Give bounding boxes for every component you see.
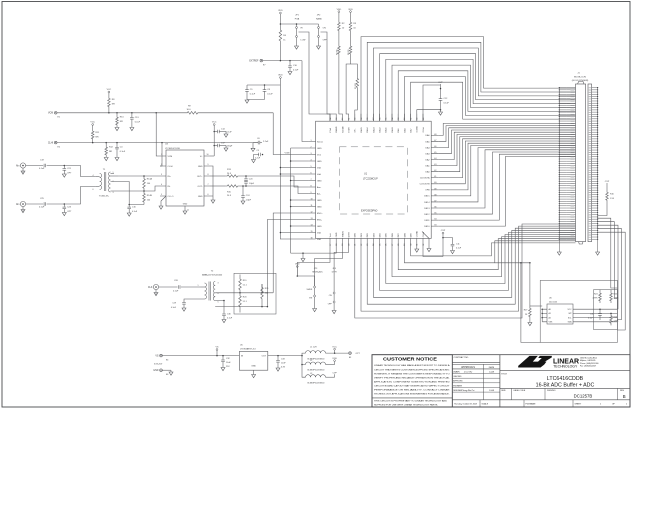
- connector J1 top notch: [578, 81, 584, 84]
- ground J2: [22, 168, 24, 171]
- resistor R3: [349, 20, 352, 33]
- svg-text:CVP: CVP: [441, 230, 446, 232]
- U3 left pin stubs: [160, 156, 166, 196]
- svg-text:62: 62: [342, 118, 344, 120]
- svg-text:10uF: 10uF: [281, 362, 286, 364]
- power VDD above R2: [338, 11, 340, 13]
- capacitor C21: [63, 166, 65, 169]
- resistor R14A: [143, 176, 146, 191]
- svg-text:4: 4: [93, 175, 94, 177]
- svg-text:LINEAR TECHNOLOGY HAS MADE A B: LINEAR TECHNOLOGY HAS MADE A BEST EFFORT…: [374, 364, 450, 367]
- svg-text:GND: GND: [183, 204, 188, 206]
- connector J3 AIn- SMA: [20, 201, 25, 206]
- svg-text:RAND: RAND: [316, 18, 322, 21]
- svg-text:NR: NR: [120, 121, 124, 123]
- wire EXTREF to Sense: [263, 60, 302, 62]
- svg-text:R25: R25: [614, 294, 617, 296]
- svg-text:9: 9: [208, 164, 209, 166]
- svg-text:3: 3: [161, 174, 162, 176]
- svg-text:Ain-: Ain-: [317, 192, 321, 195]
- ground C12: [439, 112, 443, 115]
- node VDD junction: [280, 23, 282, 25]
- wire DA7 bus: [411, 82, 576, 121]
- wire U6 left pin stubs: [542, 309, 547, 322]
- svg-text:R14A: R14A: [147, 178, 153, 181]
- svg-text:3.6V-20V: 3.6V-20V: [154, 364, 163, 366]
- svg-text:DA12: DA12: [379, 126, 382, 132]
- capacitor C10: [289, 61, 291, 66]
- wire ADC GND pin 18: [303, 247, 336, 254]
- svg-text:E3: E3: [349, 357, 351, 359]
- svg-text:DB15: DB15: [424, 196, 430, 198]
- svg-text:20: 20: [348, 244, 350, 246]
- svg-text:Phone: (408)432-1900: Phone: (408)432-1900: [580, 363, 598, 365]
- capacitor C25: [43, 202, 45, 206]
- svg-text:22: 22: [361, 244, 363, 246]
- svg-text:FILENAME: FILENAME: [526, 402, 537, 405]
- svg-text:C31: C31: [590, 314, 593, 316]
- svg-text:SUPPLIED FOR USE WITH LINEAR T: SUPPLIED FOR USE WITH LINEAR TECHNOLOGY …: [374, 404, 438, 407]
- ground ADC left rail: [301, 259, 305, 262]
- capacitor C11: [443, 238, 453, 245]
- svg-text:GND: GND: [153, 370, 158, 372]
- wire eeprom bus 3: [598, 225, 618, 309]
- resistor R9: [185, 112, 200, 115]
- wire eeprom bus 1: [598, 218, 618, 288]
- svg-text:VDD: VDD: [337, 9, 342, 11]
- svg-text:OGND: OGND: [417, 230, 419, 237]
- svg-text:SCALE: SCALE: [482, 402, 489, 405]
- inner pullup box: [594, 290, 618, 330]
- svg-text:DC1257B: DC1257B: [574, 394, 593, 399]
- svg-text:VCM: VCM: [48, 113, 53, 115]
- svg-text:4: 4: [161, 184, 162, 186]
- svg-text:GND: GND: [317, 161, 322, 163]
- svg-text:R14B: R14B: [147, 195, 153, 197]
- wire R16 to J1 rail: [598, 203, 607, 216]
- svg-text:7: 7: [311, 179, 312, 181]
- wire AIn+ to T1: [64, 166, 96, 177]
- svg-text:BLM18PG221SN1D: BLM18PG221SN1D: [308, 382, 326, 384]
- svg-text:6: 6: [208, 194, 209, 196]
- svg-text:1.8pF: 1.8pF: [249, 183, 255, 185]
- wire DB10 bus: [438, 156, 575, 226]
- resistor R14B: [143, 191, 146, 205]
- svg-text:Milpitas, CA 95035: Milpitas, CA 95035: [580, 359, 595, 362]
- svg-text:3: 3: [113, 192, 114, 194]
- wire DA0 bus: [438, 137, 575, 172]
- wire DB5 bottom bus: [386, 235, 576, 284]
- U3 right pin stubs: [204, 156, 210, 196]
- svg-text:A0: A0: [549, 308, 551, 311]
- ground R10: [115, 128, 119, 131]
- svg-text:34: 34: [434, 219, 436, 221]
- svg-text:1: 1: [198, 285, 199, 287]
- wire JP2 to ADC RAND pin 63: [321, 32, 337, 114]
- wire DB6 bottom bus: [392, 237, 576, 277]
- svg-text:2: 2: [311, 146, 312, 148]
- Linear Technology logo mark: [518, 356, 546, 368]
- wire L3 to CVP: [326, 376, 335, 378]
- wire J1 left rail to stubs: [559, 88, 566, 240]
- resistor R21: [261, 284, 264, 302]
- termination box: [234, 273, 276, 314]
- wire VS row: [162, 355, 239, 357]
- wire J1 left pin stubs: [566, 88, 575, 240]
- wire J4 to C26: [159, 286, 178, 288]
- svg-text:DA14: DA14: [366, 126, 369, 132]
- resistor R8: [108, 96, 111, 109]
- svg-text:VDD: VDD: [332, 358, 337, 360]
- terminal GND E6: [160, 369, 163, 372]
- svg-text:48: 48: [434, 134, 436, 136]
- svg-text:CLKOUTA: CLKOUTA: [420, 177, 430, 180]
- svg-text:VERIFY PROPER AND RELIABLE OPE: VERIFY PROPER AND RELIABLE OPERATION IN …: [374, 376, 451, 379]
- wire ENC+ from ADC pin 12: [273, 213, 308, 293]
- ground JP2: [318, 38, 320, 47]
- svg-text:37: 37: [434, 200, 436, 202]
- svg-text:220pF: 220pF: [227, 145, 233, 147]
- svg-text:EXPOSEDPAD: EXPOSEDPAD: [361, 209, 378, 212]
- contract no cell: [452, 361, 500, 363]
- ground right of J1 bottom: [597, 250, 599, 253]
- capacitor C26b center tap: [128, 205, 130, 207]
- svg-text:17: 17: [330, 244, 332, 246]
- power VCC for U3: [213, 124, 215, 126]
- svg-text:MODE: MODE: [342, 126, 344, 133]
- svg-text:Fax: (408)434-0507: Fax: (408)434-0507: [580, 366, 596, 368]
- svg-text:1-3-08: 1-3-08: [489, 390, 494, 392]
- svg-text:0.1uF: 0.1uF: [39, 168, 45, 170]
- ground C33: [276, 368, 280, 371]
- svg-text:16: 16: [311, 237, 313, 239]
- node J1 right rail junction dots: [597, 87, 598, 88]
- capacitor C13: [131, 113, 133, 118]
- resistor R25: [610, 291, 613, 303]
- ground C17: [225, 146, 227, 149]
- svg-text:VCC: VCC: [90, 122, 95, 124]
- svg-text:PERFORMANCE OR RELIABILITY. C: PERFORMANCE OR RELIABILITY. CONTACT LINE…: [374, 389, 450, 392]
- wire DB14 bus: [438, 148, 575, 202]
- svg-text:A2: A2: [549, 316, 551, 319]
- approvals rows: [452, 373, 500, 375]
- svg-text:GND: GND: [251, 366, 256, 368]
- wire DA14 bus: [367, 42, 575, 121]
- wire VDD to JP1: [280, 23, 296, 25]
- wire T1 center tap: [111, 182, 145, 205]
- svg-text:OGND: OGND: [417, 126, 419, 133]
- capacitor C17: [214, 145, 217, 147]
- capacitor C14: [214, 131, 217, 133]
- svg-text:CLHI: CLHI: [48, 143, 54, 145]
- ground pad tie: [427, 249, 431, 252]
- svg-text:0.1uF: 0.1uF: [120, 151, 126, 153]
- wire VCM net to ADC Vcm pin 3: [273, 113, 308, 155]
- svg-text:THIS CIRCUIT IS PROPRIETARY TO: THIS CIRCUIT IS PROPRIETARY TO LINEAR TE…: [374, 400, 448, 403]
- wire VCM row right: [200, 112, 273, 114]
- wire L2 to VDD: [326, 364, 335, 366]
- capacitor C26: [177, 285, 179, 289]
- svg-text:R24: R24: [594, 294, 597, 296]
- svg-text:44: 44: [434, 158, 436, 160]
- svg-text:0.1uF: 0.1uF: [456, 248, 462, 250]
- svg-text:14: 14: [311, 224, 313, 226]
- ground OGND pin 31: [415, 249, 419, 252]
- ground C23: [62, 213, 66, 216]
- ground C13: [130, 128, 134, 131]
- capacitor C4: [116, 143, 118, 148]
- ground C9 C8: [247, 99, 265, 101]
- svg-text:Jesse Wu: Jesse Wu: [464, 372, 473, 374]
- ground J3: [22, 207, 24, 210]
- U1 exposed pad (dashed): [339, 147, 407, 214]
- wire DB0 bottom bus: [355, 224, 576, 318]
- svg-text:GND: GND: [317, 148, 322, 150]
- wire R20 bottom: [239, 310, 241, 313]
- resistor R6: [350, 33, 352, 44]
- svg-text:4.99K: 4.99K: [593, 298, 599, 300]
- svg-text:SHEET: SHEET: [575, 403, 582, 405]
- wire DB9 bottom bus: [411, 243, 576, 256]
- svg-text:5: 5: [311, 166, 312, 168]
- svg-text:VDD: VDD: [278, 10, 283, 12]
- svg-text:11: 11: [187, 210, 189, 212]
- wire L1 to VCC: [326, 352, 349, 354]
- svg-text:DB11: DB11: [424, 220, 430, 222]
- svg-text:11: 11: [311, 205, 313, 207]
- svg-text:E4: E4: [166, 360, 168, 362]
- ground U3 GND pins: [211, 200, 215, 203]
- svg-text:R7 100: R7 100: [355, 83, 357, 89]
- svg-text:0.1uF: 0.1uF: [293, 69, 299, 71]
- svg-text:EDGE-CON: EDGE-CON: [574, 76, 586, 78]
- resistor R27: [529, 263, 531, 306]
- wire R5 to ADC MODE pin 62: [339, 56, 343, 114]
- svg-text:OUT+: OUT+: [197, 176, 203, 178]
- wire eeprom bus 5: [598, 232, 626, 330]
- svg-text:LTC2208CUP: LTC2208CUP: [363, 177, 378, 180]
- svg-text:33: 33: [434, 225, 436, 227]
- ground C29: [182, 308, 186, 311]
- svg-text:5: 5: [218, 302, 219, 304]
- svg-text:L1 1uH: L1 1uH: [310, 347, 317, 349]
- svg-text:40: 40: [434, 182, 436, 184]
- svg-text:0.1uF: 0.1uF: [444, 102, 450, 104]
- wire box feed vertical: [521, 263, 540, 343]
- wire J2 to C19: [26, 165, 44, 167]
- svg-text:DITH: DITH: [349, 232, 351, 237]
- svg-text:LOW: LOW: [301, 40, 306, 42]
- wire J1 right vertical rail: [597, 88, 599, 250]
- svg-text:NR: NR: [112, 104, 116, 106]
- svg-text:DB13: DB13: [424, 208, 430, 210]
- svg-text:OPT: OPT: [67, 211, 72, 213]
- wire R7 to ADC OF+ pin 60: [355, 90, 358, 121]
- wire U6 right pins: [573, 309, 617, 322]
- wire CLKOUTA bus: [438, 139, 575, 178]
- svg-text:6.3V: 6.3V: [281, 366, 286, 368]
- logo cell divider: [500, 369, 630, 371]
- wire DA2 bus: [438, 132, 575, 159]
- svg-text:46: 46: [434, 146, 436, 148]
- wire OFB bus: [438, 143, 575, 190]
- svg-text:43: 43: [434, 164, 436, 166]
- capacitor C19: [43, 164, 45, 168]
- wire GND E6: [162, 369, 171, 371]
- wire V+ to VCC: [210, 155, 214, 157]
- svg-text:38: 38: [434, 194, 436, 196]
- capacitor C16 vcm: [258, 153, 260, 157]
- capacitor C29: [182, 302, 186, 304]
- svg-text:1630 McCarthy Blvd.: 1630 McCarthy Blvd.: [580, 356, 598, 359]
- wire R13 to ADC Ain+: [240, 176, 309, 187]
- ground C16 vcm: [254, 155, 259, 160]
- svg-text:5: 5: [161, 194, 162, 196]
- svg-text:2: 2: [161, 164, 162, 166]
- resistor R10: [116, 113, 118, 115]
- svg-text:12: 12: [311, 211, 313, 213]
- wire eeprom bus 2: [598, 222, 618, 299]
- eeprom U6 24LC025 body: [547, 304, 573, 324]
- svg-text:GND: GND: [317, 200, 322, 202]
- svg-text:16-Bit ADC Buffer + ADC: 16-Bit ADC Buffer + ADC: [536, 383, 595, 389]
- wire T2 primary return to C29: [184, 299, 205, 302]
- wire DB12 bus: [438, 152, 575, 214]
- svg-text:0.1uF: 0.1uF: [267, 93, 273, 95]
- svg-text:3: 3: [218, 283, 219, 285]
- svg-text:Cheng-Wei Pei: Cheng-Wei Pei: [462, 390, 475, 392]
- power VDD above C9 C8: [280, 77, 282, 79]
- svg-text:8: 8: [208, 174, 209, 176]
- ground C10: [288, 72, 292, 75]
- svg-text:6: 6: [311, 172, 312, 174]
- wire VCM row: [57, 112, 185, 114]
- svg-text:NR: NR: [109, 151, 113, 153]
- svg-text:63: 63: [336, 118, 338, 120]
- node OUT junctions: [277, 355, 279, 357]
- svg-text:0.1uF: 0.1uF: [227, 318, 233, 320]
- U1 corner pad tie diagonal: [422, 232, 429, 249]
- svg-text:RAND: RAND: [335, 126, 338, 132]
- connector J2 AIn+ SMA: [20, 163, 25, 168]
- wire DA12 bus: [380, 54, 576, 122]
- wire U5 OUT row: [268, 355, 302, 357]
- svg-text:PGA: PGA: [329, 127, 332, 132]
- svg-text:4.99K: 4.99K: [614, 321, 620, 323]
- svg-text:1-3-08: 1-3-08: [489, 372, 494, 374]
- resistor R11: [91, 129, 94, 141]
- svg-text:TECHNOLOGY: TECHNOLOGY: [553, 365, 578, 369]
- wire GND rail to ground: [291, 253, 303, 258]
- capacitor C9: [246, 85, 248, 90]
- svg-text:DATE: DATE: [489, 366, 495, 369]
- U1 top pin stubs: [330, 114, 423, 121]
- wire R19 top: [239, 275, 241, 277]
- wire DA5 bus: [438, 126, 575, 142]
- svg-text:EXTREF: EXTREF: [249, 61, 259, 63]
- resistor R4: [279, 27, 282, 44]
- svg-text:Sense: Sense: [317, 141, 324, 143]
- svg-text:19: 19: [342, 244, 344, 246]
- resistor R24: [599, 291, 602, 303]
- power VS symbol: [216, 349, 218, 351]
- svg-text:CAGE CODE: CAGE CODE: [513, 389, 526, 392]
- ground C21: [62, 174, 66, 177]
- connector J1 bottom notch: [579, 242, 583, 244]
- U5 ground stub: [253, 370, 255, 374]
- svg-text:0.1uF: 0.1uF: [132, 211, 138, 213]
- svg-text:13: 13: [311, 218, 313, 220]
- svg-text:NR: NR: [96, 137, 100, 139]
- svg-text:4: 4: [218, 293, 219, 295]
- svg-text:Thursday, October 09, 2008: Thursday, October 09, 2008: [454, 402, 477, 405]
- node VCC bypass junctions: [213, 131, 215, 133]
- wire DB15 bus: [438, 145, 575, 196]
- svg-text:VCC: VCC: [568, 309, 573, 311]
- node CLHI junctions: [92, 142, 94, 144]
- scale filename sheet row: [452, 399, 630, 401]
- U3 CL LO tie: [161, 196, 166, 206]
- svg-text:SCL: SCL: [568, 317, 572, 319]
- wire DB1 bottom bus: [361, 226, 576, 311]
- svg-text:CUSTOMER NOTICE: CUSTOMER NOTICE: [383, 357, 437, 362]
- svg-text:CLKOUTB: CLKOUTB: [420, 184, 430, 186]
- customer notice box: [372, 355, 452, 407]
- svg-text:VCC: VCC: [332, 346, 337, 348]
- capacitor C20 across outputs: [245, 176, 247, 179]
- wire VDD to JP2: [297, 23, 319, 25]
- connector J1 body: [576, 84, 586, 242]
- power VCC above R11: [92, 124, 94, 126]
- svg-text:4.99K: 4.99K: [614, 298, 620, 300]
- wire VDD to JP3: [297, 276, 314, 286]
- svg-text:3: 3: [311, 153, 312, 155]
- svg-text:CVP: CVP: [332, 373, 337, 375]
- svg-text:9: 9: [311, 192, 312, 194]
- wire T2 sec center tap to C30: [215, 301, 224, 314]
- capacitor C24: [242, 186, 244, 196]
- wire DB2 bottom bus: [367, 228, 575, 304]
- svg-text:41: 41: [434, 176, 436, 178]
- ground C30: [222, 320, 226, 323]
- border frame: [2, 2, 630, 408]
- svg-text:1.5K: 1.5K: [610, 198, 615, 200]
- svg-text:DB10: DB10: [424, 226, 430, 228]
- wire DA6 bus: [438, 123, 575, 135]
- wire J1 left vertical rail: [558, 88, 560, 250]
- wire DB4 bottom bus: [380, 232, 576, 290]
- capacitor C33: [277, 356, 279, 361]
- svg-text:CL LO: CL LO: [168, 196, 174, 198]
- capacitor C31: [599, 309, 601, 313]
- svg-text:2.2uF: 2.2uF: [255, 158, 261, 160]
- svg-text:ENGINEER: ENGINEER: [453, 385, 463, 387]
- resistor R5: [338, 33, 340, 44]
- svg-text:SHDN: SHDN: [307, 289, 313, 291]
- wire VDD rail down ADC left side: [279, 85, 281, 239]
- svg-text:GND: GND: [198, 166, 203, 168]
- svg-text:ENC-: ENC-: [317, 219, 322, 221]
- svg-text:CL HI: CL HI: [168, 166, 174, 168]
- svg-text:6: 6: [93, 189, 94, 191]
- title block outline: [372, 355, 630, 407]
- wire ADC DITH pin 20 to JP4: [334, 247, 349, 293]
- svg-text:VCC: VCC: [107, 89, 112, 91]
- ground JP1: [296, 38, 298, 47]
- svg-text:30: 30: [410, 244, 412, 246]
- svg-text:32: 32: [423, 244, 425, 246]
- wire C26 to T2: [181, 286, 201, 288]
